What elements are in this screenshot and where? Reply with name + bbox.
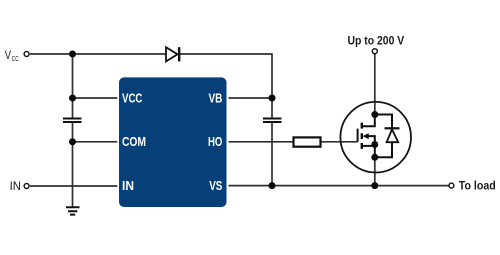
svg-text:To load: To load bbox=[459, 179, 496, 193]
capacitor C1 plates bbox=[63, 119, 82, 123]
svg-text:VCC: VCC bbox=[122, 91, 142, 105]
Q1 drain connection bbox=[362, 115, 375, 127]
diode D1 (bootstrap) bbox=[166, 47, 178, 61]
wire Vcc top rail left of diode bbox=[30, 53, 166, 55]
wire HO pin to gate resistor bbox=[229, 141, 294, 143]
svg-text:HO: HO bbox=[208, 135, 223, 149]
body diode cathode bar bbox=[385, 127, 400, 129]
wire top rail diode to corner, down to VB column bbox=[180, 53, 272, 55]
wire drain from 200V terminal bbox=[374, 54, 376, 115]
body diode cathode branch bbox=[375, 115, 392, 129]
IC U1 gate driver block bbox=[119, 77, 227, 207]
wire VCC pin branch bbox=[73, 97, 118, 99]
wire right vertical below bootstrap capacitor bbox=[271, 123, 273, 186]
terminal IN bbox=[24, 184, 29, 189]
resistor R1 (gate) bbox=[294, 137, 321, 146]
body diode anode branch bbox=[375, 142, 392, 157]
junction body diode anode bbox=[371, 154, 378, 161]
wire IN input bbox=[30, 185, 117, 187]
transistor Q1 MOSFET circle bbox=[340, 102, 411, 173]
junction COM branch bbox=[69, 138, 76, 145]
junction top rail / left vertical bbox=[69, 51, 76, 58]
Q1 gate bar bbox=[357, 129, 359, 142]
wire left vertical above capacitor bbox=[72, 54, 74, 118]
junction VB branch bbox=[269, 95, 276, 102]
svg-text:V: V bbox=[5, 48, 11, 62]
junction source / body bbox=[371, 141, 378, 148]
junction source / VS rail bbox=[371, 182, 378, 189]
wire right vertical above bootstrap capacitor bbox=[271, 53, 273, 117]
wire COM pin branch bbox=[73, 141, 118, 143]
junction VS / bootstrap cap bbox=[269, 182, 276, 189]
body diode triangle bbox=[387, 129, 399, 142]
terminal Vcc bbox=[24, 52, 29, 57]
wire left vertical below capacitor to ground bbox=[72, 123, 74, 207]
svg-text:Up to 200 V: Up to 200 V bbox=[348, 33, 405, 47]
capacitor C2 (bootstrap) plates bbox=[263, 119, 282, 123]
svg-text:COM: COM bbox=[122, 135, 146, 149]
svg-text:CC: CC bbox=[12, 54, 19, 63]
Q1 source connection bbox=[369, 136, 375, 157]
ground bbox=[66, 207, 80, 214]
svg-text:VS: VS bbox=[209, 179, 222, 193]
wire source to VS rail bbox=[374, 157, 376, 185]
junction VCC branch bbox=[69, 95, 76, 102]
svg-text:VB: VB bbox=[209, 91, 223, 105]
wire VB pin branch bbox=[229, 97, 273, 99]
wire gate resistor to MOSFET gate bbox=[321, 141, 358, 143]
Q1 body connection bbox=[362, 145, 375, 147]
terminal to load bbox=[449, 183, 454, 188]
wire VS rail to load bbox=[229, 185, 449, 187]
svg-text:IN: IN bbox=[122, 179, 134, 193]
Q1 source arrow bbox=[363, 133, 369, 139]
svg-text:IN: IN bbox=[10, 179, 21, 193]
terminal 200V supply bbox=[372, 49, 377, 54]
junction drain / body diode bbox=[371, 111, 378, 118]
Q1 channel segments bbox=[361, 123, 363, 149]
